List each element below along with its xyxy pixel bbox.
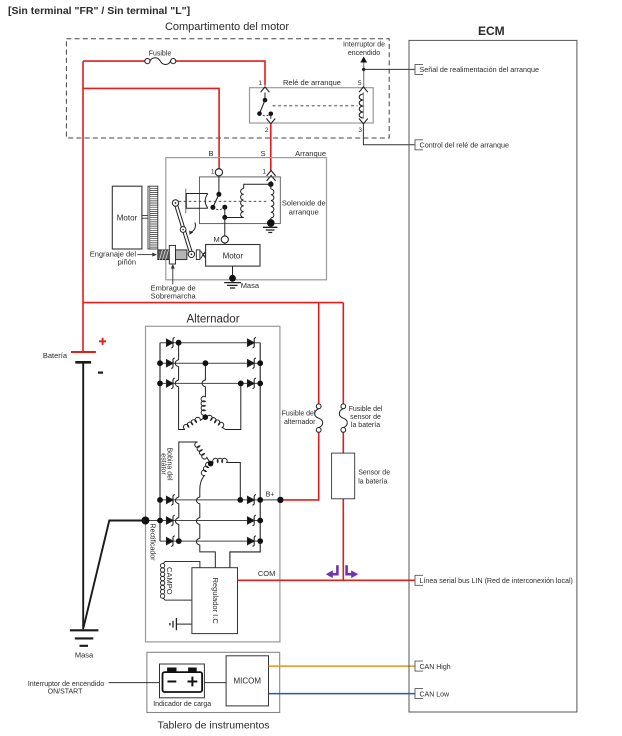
svg-text:Motor: Motor — [223, 252, 244, 261]
starter relay K1 (Relé de arranque) box — [250, 88, 374, 123]
ECM pin: starter relay control — [415, 140, 423, 150]
ground: starter Masa — [224, 283, 241, 288]
stator 1 right coil — [205, 415, 225, 429]
svg-text:3: 3 — [358, 127, 362, 134]
svg-text:Masa: Masa — [241, 281, 260, 290]
wire: red battery positive vertical — [82, 61, 84, 351]
svg-text:1: 1 — [258, 80, 262, 87]
svg-text:Regulador I.C: Regulador I.C — [211, 577, 220, 624]
stator 2 lower-left coil — [200, 462, 211, 489]
wire: M terminal lead — [224, 217, 226, 236]
diode D12 — [248, 538, 255, 545]
wire: battery negative to ground — [82, 364, 84, 630]
wire: gray ignition feed to relay pin 5 — [363, 63, 365, 88]
svg-text:Fusible del: Fusible del — [282, 410, 316, 417]
wire: starter motor ground — [232, 266, 234, 276]
voltage regulator (Regulador I.C) — [192, 568, 238, 634]
rectifier row 1 — [160, 342, 260, 344]
svg-text:encendido: encendido — [348, 50, 380, 57]
svg-text:Interruptor de encendido: Interruptor de encendido — [28, 681, 104, 688]
solenoid pull-in coil — [244, 184, 271, 188]
node: alternator ground terminal — [141, 517, 149, 525]
svg-text:la batería: la batería — [358, 479, 387, 486]
shift lever (fork) — [174, 203, 193, 255]
ECM pin: CAN Low — [415, 689, 423, 699]
starter motor pictorial box — [112, 186, 142, 249]
diode D9 — [248, 380, 255, 387]
svg-text:B+: B+ — [266, 492, 275, 499]
ECM pin: LIN serial bus — [415, 575, 423, 585]
LIN direction arrows (purple) — [332, 565, 337, 574]
svg-text:Sobremarcha: Sobremarcha — [151, 292, 197, 301]
svg-text:Compartimento del motor: Compartimento del motor — [165, 21, 289, 33]
wire: red feed to starter B terminal — [83, 88, 219, 168]
svg-text:Batería: Batería — [43, 351, 68, 360]
svg-text:Solenoide de: Solenoide de — [282, 199, 326, 208]
battery - sign — [98, 372, 103, 374]
svg-text:la batería: la batería — [351, 422, 380, 429]
node: solenoid M junction — [222, 215, 227, 220]
fuse: Fusible del sensor de la bateria — [341, 404, 346, 409]
wire: CAN High (orange) — [269, 665, 416, 667]
svg-text:5: 5 — [358, 80, 362, 87]
rectifier row 2 — [160, 362, 260, 364]
node: stator 2 neutral — [208, 461, 214, 467]
solenoid plunger — [185, 189, 187, 214]
rectifier row 5 (ground) — [145, 520, 260, 522]
wire: red B+ horizontal bus to fuses — [83, 302, 343, 304]
svg-text:ECM: ECM — [478, 24, 505, 38]
field winding CAMPO — [165, 562, 200, 601]
svg-text:[Sin terminal "FR" / Sin termi: [Sin terminal "FR" / Sin terminal "L"] — [8, 5, 190, 17]
svg-text:Interruptor de: Interruptor de — [343, 42, 385, 49]
diode D1 — [167, 339, 174, 346]
svg-text:Masa: Masa — [75, 651, 94, 660]
stator 1 vertical coil — [201, 396, 205, 417]
diode D2 — [167, 360, 174, 367]
solenoid box (Solenoide de arranque) — [200, 177, 281, 224]
instrument panel box (Tablero de instrumentos) — [147, 652, 280, 712]
shaft coupling to motor — [196, 250, 200, 260]
diode D7 — [248, 339, 255, 346]
diode D4 — [167, 496, 174, 503]
node: S terminal junction — [268, 182, 273, 187]
diode D10 — [248, 496, 255, 503]
svg-text:ON/START: ON/START — [48, 688, 83, 695]
svg-text:Alternador: Alternador — [186, 314, 239, 326]
diode D6 — [167, 538, 174, 545]
svg-text:Fusible del: Fusible del — [349, 406, 383, 413]
fuse F (Fusible) — [145, 59, 150, 64]
relay switch contact — [264, 93, 266, 101]
stator 2 right coil — [213, 458, 228, 462]
battery sensor box (Sensor de la bateria) — [332, 453, 355, 499]
battery + sign — [99, 338, 106, 345]
svg-text:piñón: piñón — [118, 258, 136, 267]
right bus to regulator — [230, 343, 260, 568]
battery positive plate — [71, 351, 96, 353]
charge indicator box — [160, 664, 205, 698]
svg-text:1: 1 — [262, 169, 266, 176]
regulator phase wire (with hops) — [196, 490, 215, 568]
phase wire A bottom (with hops) — [175, 442, 197, 541]
diode D5 — [167, 517, 174, 524]
relay mechanical dashed link — [273, 105, 358, 107]
junction dots on rectifier — [157, 340, 263, 544]
ground: regulator — [176, 623, 192, 625]
overrunning clutch body — [169, 245, 175, 264]
rectifier row 4 (B+) — [160, 499, 280, 501]
charge indicator battery symbol — [163, 672, 203, 692]
ECM pin: CAN High — [415, 661, 423, 671]
phase wire C top — [226, 383, 241, 429]
svg-text:Señal de realimentación del ar: Señal de realimentación del arranque — [420, 65, 539, 74]
wire: red relay pin 2 to starter S terminal — [270, 124, 272, 171]
stator 1 left coil — [183, 417, 205, 429]
diode D8 — [248, 360, 255, 367]
svg-text:S: S — [260, 149, 265, 158]
solenoid switch from B — [218, 176, 220, 194]
svg-text:MICOM: MICOM — [234, 677, 262, 686]
wire: alternator ground to battery ground — [84, 521, 146, 628]
svg-text:CAN Low: CAN Low — [420, 691, 451, 698]
stator 2 upper-left coil — [195, 442, 211, 464]
pinion gear (hatched) — [158, 250, 170, 260]
lever rotation arrow — [191, 223, 196, 233]
wire: red battery-sensor fuse branch — [342, 303, 344, 581]
svg-text:Relé de arranque: Relé de arranque — [283, 78, 341, 87]
svg-text:Fusible: Fusible — [149, 51, 172, 58]
wire: starter feedback signal to ECM — [364, 68, 415, 70]
svg-text:Control del relé de arranque: Control del relé de arranque — [420, 141, 510, 150]
svg-text:arranque: arranque — [289, 208, 319, 217]
phase wire A top (with hops) — [175, 343, 185, 430]
svg-text:CAN High: CAN High — [420, 664, 451, 671]
rectifier row 3 — [160, 382, 260, 384]
fuse: Fusible del alternador — [316, 404, 321, 409]
wire: relay pin 3 control to ECM — [363, 124, 415, 145]
wire: red alternator fuse branch — [284, 303, 319, 500]
left bus — [159, 343, 161, 541]
node: starter ground — [229, 275, 236, 282]
solenoid ground — [267, 219, 275, 227]
svg-text:Arranque: Arranque — [295, 149, 326, 158]
svg-text:alternador: alternador — [284, 419, 316, 426]
engine compartment dashed box — [66, 39, 389, 138]
wire: ignition to charge indicator — [109, 682, 160, 684]
alternator box (Alternador) — [146, 326, 280, 642]
svg-text:1: 1 — [211, 169, 215, 176]
svg-text:CAMPO: CAMPO — [165, 567, 174, 595]
svg-text:Sensor de: Sensor de — [358, 470, 390, 477]
solenoid hold-in coil — [270, 184, 272, 189]
ECM box — [409, 40, 577, 712]
wire: charge indicator to MICOM — [204, 682, 226, 684]
svg-text:Línea serial bus LIN (Red de i: Línea serial bus LIN (Red de interconexi… — [420, 577, 573, 585]
svg-text:Rectificador: Rectificador — [148, 524, 155, 562]
ground: Masa (battery) — [70, 630, 99, 646]
diodes D1-D12 — [167, 337, 256, 546]
MICOM box — [226, 656, 268, 706]
starter motor box (Motor) — [206, 245, 260, 267]
phase wire C bottom — [228, 463, 240, 500]
terminal M — [221, 236, 228, 243]
diode D3 — [167, 380, 174, 387]
svg-text:Tablero de instrumentos: Tablero de instrumentos — [157, 720, 269, 732]
wire: CAN Low (blue) — [269, 693, 416, 695]
ECM pin: starter feedback — [415, 64, 423, 74]
svg-text:B: B — [208, 149, 213, 158]
solenoid mechanical dashed link — [179, 200, 269, 202]
node: branch to ECM start feedback — [362, 68, 365, 71]
node: B+ terminal — [277, 497, 283, 503]
battery negative plate — [75, 361, 91, 364]
svg-text:2: 2 — [265, 127, 269, 134]
svg-text:Motor: Motor — [117, 214, 138, 223]
wire: red LIN/COM line to ECM — [238, 579, 416, 581]
svg-text:COM: COM — [258, 569, 276, 578]
motor shaft — [142, 215, 148, 218]
rectifier row 6 — [160, 540, 260, 542]
ring gear — [148, 186, 158, 249]
svg-text:estátor: estátor — [160, 453, 167, 475]
node: stator 1 neutral — [203, 414, 209, 420]
wire: red fuse feed from battery + to relay pin 1 — [83, 61, 265, 85]
relay coil — [362, 92, 364, 118]
starter box (Arranque) — [166, 158, 327, 280]
phase wire B top (with hop) — [202, 363, 205, 397]
svg-text:Indicador de carga: Indicador de carga — [153, 701, 211, 708]
diode D11 — [248, 517, 255, 524]
svg-text:sensor de: sensor de — [350, 414, 381, 421]
svg-text:M: M — [214, 235, 220, 244]
